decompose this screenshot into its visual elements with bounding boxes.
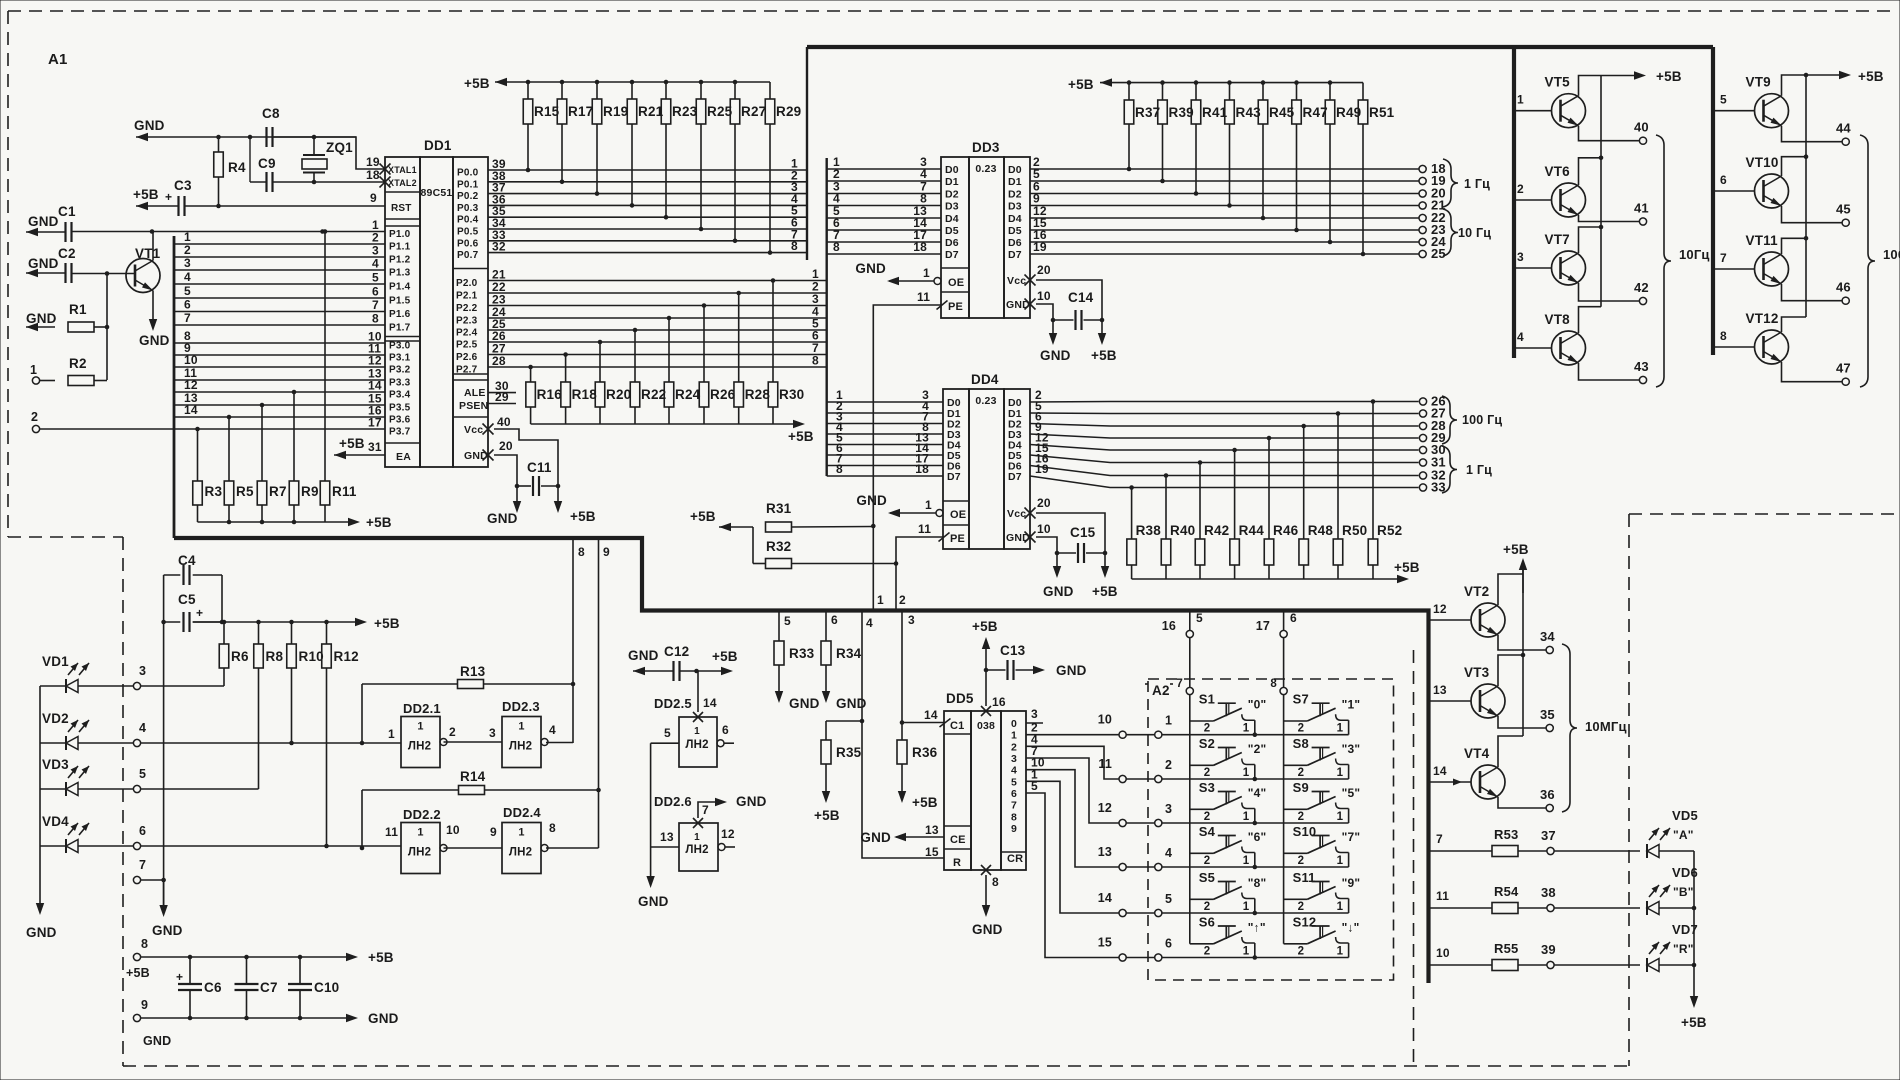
resistor R53 <box>1492 827 1547 857</box>
svg-text:R45: R45 <box>1269 105 1295 120</box>
svg-text:D7: D7 <box>945 249 959 261</box>
svg-text:+: + <box>176 970 183 984</box>
switch S1 <box>1190 692 1267 737</box>
svg-text:"3": "3" <box>1342 742 1361 756</box>
svg-text:P3.3: P3.3 <box>389 378 411 389</box>
svg-text:20: 20 <box>1037 496 1051 510</box>
label GND (C2) <box>28 256 59 271</box>
svg-text:ЛН2: ЛН2 <box>685 739 708 751</box>
svg-text:39: 39 <box>1541 942 1556 957</box>
wire keypad row 1 <box>1162 734 1349 736</box>
svg-text:"↑": "↑" <box>1248 921 1266 935</box>
wire R15-R29 +5B rail <box>495 78 770 86</box>
svg-text:GND: GND <box>28 214 59 229</box>
svg-text:8: 8 <box>578 545 585 559</box>
svg-text:R8: R8 <box>266 649 284 664</box>
wire P0.0 row <box>488 157 807 171</box>
svg-text:D5: D5 <box>1008 225 1022 237</box>
wire DD5 out1 <box>1026 721 1119 735</box>
svg-text:VT6: VT6 <box>1545 164 1571 179</box>
wire DD2.2 out to DD2.4 in <box>444 847 503 849</box>
svg-text:8: 8 <box>141 937 148 951</box>
svg-text:3: 3 <box>1165 802 1172 816</box>
svg-text:9: 9 <box>1011 823 1017 835</box>
connector pin A2-2 <box>1126 758 1172 783</box>
pin DD5 CE <box>860 823 965 846</box>
LED VD5 <box>1647 808 1698 858</box>
resistor R51 <box>1358 83 1394 257</box>
svg-text:S7: S7 <box>1293 692 1309 707</box>
svg-text:038: 038 <box>977 720 995 732</box>
svg-text:Vcc: Vcc <box>464 424 483 436</box>
pins P2 numbers <box>492 268 506 369</box>
wire DD4 D5 input <box>827 441 943 455</box>
svg-text:P1.4: P1.4 <box>389 282 411 293</box>
svg-text:GND: GND <box>143 1034 171 1048</box>
svg-text:6: 6 <box>372 285 379 299</box>
svg-text:VD1: VD1 <box>42 654 69 669</box>
svg-text:12: 12 <box>1433 602 1447 616</box>
svg-text:R23: R23 <box>672 104 698 119</box>
capacitor C7 <box>235 957 278 1018</box>
resistor R27 <box>730 82 766 243</box>
resistor R19 <box>592 82 628 196</box>
pin EA <box>368 440 411 463</box>
transistor VT6 <box>1545 164 1586 217</box>
connector pin 21 <box>1419 198 1446 213</box>
svg-text:VT9: VT9 <box>1746 75 1771 90</box>
wire VT2 collector <box>1498 574 1523 605</box>
connector pin 22 <box>1419 210 1446 225</box>
svg-text:7: 7 <box>139 858 146 872</box>
frame: dashed bottom border <box>123 1065 1629 1067</box>
svg-text:P3.1: P3.1 <box>389 353 411 364</box>
svg-text:P2.2: P2.2 <box>456 303 478 314</box>
wire 8 vertical <box>571 538 585 743</box>
wire VT5 collector <box>1579 76 1602 96</box>
wire R37-R51 +5B rail <box>1100 78 1363 86</box>
wire P0.2 row <box>488 180 807 194</box>
pins DD4 D labels right <box>1008 397 1022 483</box>
bus: thick path bottom-left <box>174 538 1429 983</box>
svg-text:DD2.4: DD2.4 <box>503 805 541 820</box>
svg-text:10МГц: 10МГц <box>1585 719 1627 734</box>
svg-text:0: 0 <box>1011 718 1017 730</box>
svg-text:+: + <box>165 190 172 204</box>
wire GND top rail <box>136 133 356 141</box>
wire DD5 out3 <box>1026 744 1119 823</box>
svg-text:ZQ1: ZQ1 <box>326 140 353 155</box>
wire VT1 emitter GND <box>139 291 170 349</box>
svg-text:P3.6: P3.6 <box>389 415 411 426</box>
pins DD5 digits 0-9 <box>1011 718 1017 835</box>
wire DD3 D7 input <box>827 240 941 254</box>
IC DD5 left column <box>944 711 971 870</box>
svg-text:+5B: +5B <box>368 950 394 965</box>
wire R3-R11 +5B rail <box>198 515 392 530</box>
svg-text:R28: R28 <box>745 387 771 402</box>
wire DD4 D2 input <box>827 410 943 424</box>
pin Vcc DD1 <box>464 415 511 436</box>
brace 1Hz group b <box>1442 446 1492 493</box>
svg-text:C5: C5 <box>178 592 196 607</box>
wire DD5 out6 <box>1026 779 1119 958</box>
svg-text:ЛН2: ЛН2 <box>408 741 431 753</box>
resistor R30 <box>768 278 804 424</box>
svg-text:P2.5: P2.5 <box>456 340 478 351</box>
svg-text:42: 42 <box>1634 280 1649 295</box>
wire VT2 emitter <box>1498 635 1546 650</box>
wire 3 drop <box>900 611 944 725</box>
pin XTAL1 <box>366 155 417 175</box>
svg-text:1: 1 <box>1243 811 1250 823</box>
wire P0.7 row <box>488 239 807 253</box>
connector pin 42 <box>1634 280 1649 305</box>
connector pin 8 <box>126 937 150 980</box>
IC DD4 center column <box>969 389 1004 549</box>
connector pin 16 <box>1162 619 1194 638</box>
wire R54 row pin <box>1429 889 1493 908</box>
svg-text:C7: C7 <box>260 980 278 995</box>
svg-text:PSEN: PSEN <box>459 400 488 412</box>
LED VD1 <box>40 654 133 693</box>
resistor R38 <box>1127 485 1161 579</box>
svg-text:+5B: +5B <box>126 966 150 980</box>
wire P3.4 (bus 12) <box>174 378 385 392</box>
svg-text:+5B: +5B <box>972 619 998 634</box>
wire VT10 emitter <box>1782 206 1843 223</box>
svg-text:8: 8 <box>1011 811 1017 823</box>
svg-text:R9: R9 <box>301 484 319 499</box>
IC DD4 left column <box>943 389 969 549</box>
svg-text:15: 15 <box>1098 936 1112 950</box>
wire VT7 collector <box>1579 227 1602 253</box>
svg-text:+5B: +5B <box>814 808 840 823</box>
junction R12 row6 <box>324 844 329 849</box>
wire row4 to DD2.1 <box>141 742 401 744</box>
connector pin 8 (A2) <box>1270 678 1287 695</box>
svg-text:12: 12 <box>184 378 198 392</box>
resistor R25 <box>696 82 732 231</box>
svg-text:C3: C3 <box>174 178 192 193</box>
wire DD4 GND path <box>1036 537 1074 599</box>
svg-text:D5: D5 <box>945 225 959 237</box>
wire DD4 D4 output <box>1030 431 1419 451</box>
svg-text:2: 2 <box>184 243 191 257</box>
svg-text:VT8: VT8 <box>1545 312 1571 327</box>
bus: thick vertical x=1514 <box>1512 47 1516 358</box>
svg-text:R13: R13 <box>460 664 486 679</box>
svg-text:GND: GND <box>1056 663 1087 678</box>
pins DD4 D labels left <box>947 397 961 483</box>
svg-text:3: 3 <box>184 256 191 270</box>
svg-text:+5B: +5B <box>912 795 938 810</box>
svg-text:P3.5: P3.5 <box>389 403 411 414</box>
pin DD3 PE <box>917 290 963 313</box>
svg-text:"0": "0" <box>1248 698 1267 712</box>
svg-text:R5: R5 <box>236 484 254 499</box>
resistor R54 <box>1492 884 1547 914</box>
wire keypad rail 2 <box>1283 695 1285 944</box>
svg-text:P1.7: P1.7 <box>389 323 411 334</box>
resistor R37 <box>1124 83 1160 172</box>
svg-text:13: 13 <box>660 830 674 844</box>
svg-text:VT4: VT4 <box>1464 746 1490 761</box>
svg-text:9: 9 <box>603 545 610 559</box>
wire R38-R52 +5B rail <box>1132 560 1420 583</box>
svg-text:"7": "7" <box>1342 830 1361 844</box>
label GND (top-left) <box>134 118 165 133</box>
wire DD3 D4 output <box>1030 204 1419 218</box>
IC DD3 label <box>972 140 1000 155</box>
svg-text:14: 14 <box>924 708 938 722</box>
resistor R50 <box>1333 411 1367 579</box>
pin DD5 C1 <box>924 708 964 732</box>
wire VT8 emitter <box>1579 363 1640 380</box>
svg-text:1: 1 <box>694 832 700 843</box>
gate DD2.6 <box>654 794 725 871</box>
svg-text:VD4: VD4 <box>42 814 69 829</box>
resistor R3 <box>193 427 223 522</box>
svg-text:R33: R33 <box>789 646 815 661</box>
svg-text:2: 2 <box>449 725 456 739</box>
wire DD4 D2 output <box>1030 410 1419 427</box>
svg-text:12: 12 <box>721 827 735 841</box>
wire VT9-12 collector rail <box>1804 75 1809 317</box>
wire +5B arrow (VT9 rail) <box>1804 69 1884 84</box>
svg-text:R16: R16 <box>537 387 563 402</box>
wire DD4 D6 input <box>827 452 943 466</box>
resistor R23 <box>661 82 697 220</box>
svg-text:DD4: DD4 <box>971 372 999 387</box>
svg-text:R44: R44 <box>1239 523 1265 538</box>
svg-text:P0.5: P0.5 <box>457 227 479 238</box>
svg-text:P0.6: P0.6 <box>457 238 479 249</box>
wire VT5-8 collector rail <box>1599 76 1604 307</box>
svg-text:DD2.3: DD2.3 <box>502 699 540 714</box>
svg-text:5: 5 <box>1031 779 1038 793</box>
wire R13 to DD2.1 input <box>360 684 365 745</box>
resistor R43 <box>1225 83 1261 208</box>
transistor VT5 <box>1545 75 1586 128</box>
IC DD1 left column <box>385 157 420 467</box>
wire +5B rail (R6-R12) <box>193 616 400 631</box>
connector pin 9 <box>133 998 171 1048</box>
svg-text:+: + <box>196 606 203 620</box>
svg-text:R4: R4 <box>228 160 246 175</box>
svg-text:8: 8 <box>992 875 999 889</box>
svg-text:3: 3 <box>139 664 146 678</box>
wire VT4 base <box>1429 764 1472 786</box>
svg-text:P3.2: P3.2 <box>389 365 411 376</box>
svg-text:1: 1 <box>30 363 37 377</box>
svg-text:S9: S9 <box>1293 780 1309 795</box>
gate DD2.1 <box>388 701 456 768</box>
connector pin 29 <box>1419 430 1445 445</box>
svg-text:8: 8 <box>812 354 819 368</box>
svg-text:C12: C12 <box>664 644 689 659</box>
wire DD3 PE to bus (wire 1) <box>871 305 941 611</box>
svg-text:3: 3 <box>372 244 379 258</box>
resistor R21 <box>627 82 663 208</box>
svg-text:DD1: DD1 <box>424 138 452 153</box>
svg-text:2: 2 <box>1011 741 1017 753</box>
connector pin A2-1 <box>1126 714 1172 739</box>
wire GND DD1 path <box>487 455 521 526</box>
resistor R26 <box>699 303 735 424</box>
wire VT10 collector <box>1782 157 1807 176</box>
bus: thick vertical x=826.7 <box>826 158 828 476</box>
svg-text:+5B: +5B <box>1681 1015 1707 1030</box>
wire P2.1 row <box>488 280 827 294</box>
svg-text:4: 4 <box>184 270 191 284</box>
wire 17 drop <box>1284 611 1297 631</box>
wire 9 vertical <box>596 538 610 848</box>
svg-text:RST: RST <box>391 203 412 214</box>
svg-text:7: 7 <box>1436 832 1443 846</box>
transistor VT7 <box>1545 232 1586 285</box>
wire VT9 emitter <box>1782 126 1843 142</box>
svg-text:DD2.6: DD2.6 <box>654 794 692 809</box>
svg-text:2: 2 <box>1298 855 1305 867</box>
svg-text:P3.7: P3.7 <box>389 427 411 438</box>
svg-text:7: 7 <box>1176 678 1183 690</box>
wire VT11 collector <box>1782 238 1807 254</box>
wire DD4 D0 input <box>827 388 943 402</box>
wire DD2.6 output <box>721 827 735 847</box>
svg-text:CE: CE <box>950 834 966 846</box>
svg-text:S5: S5 <box>1199 870 1215 885</box>
label +5B (R37 rail) <box>1068 77 1094 92</box>
svg-text:0.23: 0.23 <box>975 163 996 175</box>
svg-text:GND: GND <box>26 311 57 326</box>
svg-text:DD2.2: DD2.2 <box>403 807 441 822</box>
resistor R35 <box>814 721 862 823</box>
wire DD4 D1 input <box>827 399 943 413</box>
svg-text:34: 34 <box>1540 629 1555 644</box>
bus: thick horizontal top <box>807 45 1713 49</box>
svg-text:D2: D2 <box>945 189 959 201</box>
svg-text:+5B: +5B <box>788 429 814 444</box>
connector pin 25 <box>1419 246 1446 261</box>
svg-text:D4: D4 <box>945 213 959 225</box>
svg-text:2: 2 <box>1298 901 1305 913</box>
wire row7 to GND <box>141 880 183 938</box>
wire DD5 out2 <box>1026 732 1119 779</box>
switch S7 <box>1284 692 1361 735</box>
wire DD3 D5 output <box>1030 216 1419 230</box>
capacitor C9 <box>258 156 276 192</box>
wire P2.7 row <box>488 354 827 368</box>
resistor R28 <box>734 291 770 424</box>
connector pin A2-3 <box>1126 802 1172 827</box>
svg-text:32: 32 <box>492 240 506 254</box>
wire VT1 collector <box>152 232 154 261</box>
wire VT11 emitter <box>1782 284 1843 301</box>
svg-text:14: 14 <box>1433 764 1447 778</box>
wire DD4 D7 input <box>827 462 943 476</box>
wire DD3 D3 input <box>827 192 941 206</box>
svg-text:5: 5 <box>1196 611 1203 625</box>
connector pin 46 <box>1836 280 1851 305</box>
resistor R2 <box>68 356 107 386</box>
wire P2.0 row <box>488 267 827 281</box>
resistor R7 <box>257 403 286 522</box>
pin ALE <box>464 379 516 399</box>
svg-text:2: 2 <box>1204 723 1211 735</box>
svg-text:R18: R18 <box>572 387 598 402</box>
resistor R12 <box>322 622 359 846</box>
svg-text:P1.5: P1.5 <box>389 296 411 307</box>
svg-text:1: 1 <box>1243 767 1250 779</box>
wire P3.2 (bus 10) <box>174 353 385 367</box>
svg-text:R34: R34 <box>836 646 862 661</box>
wire 4 drop <box>860 611 944 859</box>
svg-text:GND: GND <box>139 333 170 348</box>
svg-text:+5B: +5B <box>366 515 392 530</box>
wire DD4 D6 output <box>1030 452 1419 476</box>
wire DD3 D4 input <box>827 204 941 218</box>
connector pin 7 <box>133 858 146 884</box>
wire 16 drop <box>1190 611 1203 631</box>
svg-text:Vcc: Vcc <box>1007 508 1026 520</box>
svg-text:P1.6: P1.6 <box>389 309 411 320</box>
wire P1.5 (bus 5) <box>174 284 385 298</box>
svg-text:"9": "9" <box>1342 876 1361 890</box>
wire row9 GND <box>141 1011 399 1026</box>
svg-text:37: 37 <box>1541 828 1556 843</box>
svg-text:2: 2 <box>31 410 38 424</box>
svg-text:15: 15 <box>925 845 939 859</box>
svg-text:14: 14 <box>1098 891 1112 905</box>
wire VT9 base <box>1713 93 1755 111</box>
wire VT4 emitter <box>1498 797 1546 808</box>
svg-text:D0: D0 <box>945 164 959 176</box>
connector pin 39 <box>1541 942 1640 969</box>
svg-text:P3.0: P3.0 <box>389 341 411 352</box>
resistor R31 assembly <box>690 501 873 532</box>
frame: outer dashed border A1 left <box>7 11 9 537</box>
svg-text:R55: R55 <box>1494 941 1518 956</box>
frame: dashed vertical x=1413 <box>1413 650 1415 1066</box>
wire C4 left vertical <box>161 575 166 912</box>
svg-text:10: 10 <box>1436 946 1450 960</box>
svg-text:13: 13 <box>1433 683 1447 697</box>
wire P0.3 row <box>488 192 807 206</box>
resistor R36 <box>897 723 938 811</box>
wire VT2-4 collector rail <box>1521 563 1526 736</box>
wire DD2.5/6 input GND <box>638 743 669 909</box>
wire DD3 D2 output <box>1030 180 1419 194</box>
svg-text:D3: D3 <box>1008 201 1022 213</box>
svg-text:R30: R30 <box>779 387 804 402</box>
svg-text:2: 2 <box>1298 946 1305 958</box>
svg-text:VT10: VT10 <box>1746 155 1779 170</box>
svg-text:1: 1 <box>1243 855 1250 867</box>
svg-text:28: 28 <box>492 354 506 368</box>
gate DD2.2 <box>385 807 460 874</box>
wire VT6 emitter <box>1579 215 1640 222</box>
svg-text:D6: D6 <box>1008 237 1022 249</box>
svg-text:1: 1 <box>417 827 423 839</box>
label GND (C1) <box>28 214 59 229</box>
resistor R20 <box>595 340 631 424</box>
IC DD5 right column <box>1001 711 1026 870</box>
svg-text:P0.0: P0.0 <box>457 168 479 179</box>
connector pin 17 <box>1256 619 1288 638</box>
connector pin 6 <box>133 824 146 850</box>
wire keypad row 5 <box>1162 912 1349 914</box>
